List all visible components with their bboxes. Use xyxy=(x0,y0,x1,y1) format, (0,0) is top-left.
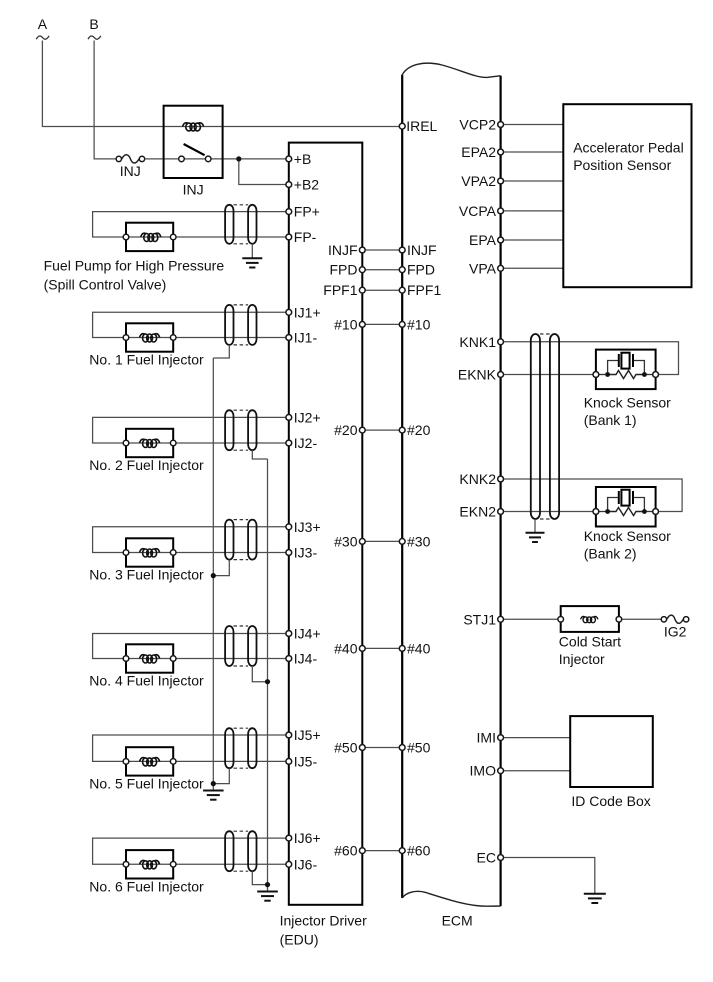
svg-text:FPD: FPD xyxy=(407,262,435,278)
svg-text:INJ: INJ xyxy=(120,163,141,179)
svg-text:IMO: IMO xyxy=(470,763,497,779)
svg-text:#20: #20 xyxy=(407,422,431,438)
svg-text:VPA: VPA xyxy=(469,260,497,276)
svg-text:+B2: +B2 xyxy=(294,177,320,193)
svg-text:VCPA: VCPA xyxy=(459,203,497,219)
svg-text:#30: #30 xyxy=(334,533,358,549)
svg-text:+B: +B xyxy=(294,151,312,167)
svg-text:INJF: INJF xyxy=(407,242,437,258)
svg-text:#10: #10 xyxy=(334,316,358,332)
svg-text:EKN2: EKN2 xyxy=(459,504,496,520)
svg-text:IJ5-: IJ5- xyxy=(294,753,318,769)
svg-text:Fuel Pump for High Pressure: Fuel Pump for High Pressure xyxy=(44,258,225,274)
svg-text:IJ4-: IJ4- xyxy=(294,651,318,667)
svg-text:No. 5 Fuel Injector: No. 5 Fuel Injector xyxy=(89,775,204,791)
svg-text:ECM: ECM xyxy=(442,913,473,929)
svg-text:#60: #60 xyxy=(407,843,431,859)
svg-text:B: B xyxy=(89,16,98,32)
svg-text:ID Code Box: ID Code Box xyxy=(571,793,650,809)
svg-text:STJ1: STJ1 xyxy=(463,611,496,627)
svg-text:FP+: FP+ xyxy=(294,204,320,220)
svg-text:IJ2+: IJ2+ xyxy=(294,409,321,425)
svg-text:VCP2: VCP2 xyxy=(459,117,496,133)
svg-text:No. 1 Fuel Injector: No. 1 Fuel Injector xyxy=(89,352,204,368)
svg-text:Injector Driver: Injector Driver xyxy=(280,913,367,929)
svg-text:Knock Sensor: Knock Sensor xyxy=(584,394,671,410)
svg-text:IJ2-: IJ2- xyxy=(294,435,318,451)
svg-text:Injector: Injector xyxy=(559,651,605,667)
svg-text:EC: EC xyxy=(477,850,496,866)
svg-text:FPD: FPD xyxy=(330,262,358,278)
svg-text:INJF: INJF xyxy=(328,242,358,258)
svg-text:KNK2: KNK2 xyxy=(459,471,496,487)
svg-text:Knock Sensor: Knock Sensor xyxy=(584,528,671,544)
svg-text:No. 2 Fuel Injector: No. 2 Fuel Injector xyxy=(89,457,204,473)
svg-text:IJ3+: IJ3+ xyxy=(294,519,321,535)
svg-text:(Bank 1): (Bank 1) xyxy=(584,412,637,428)
svg-text:#40: #40 xyxy=(407,640,431,656)
svg-text:IJ1-: IJ1- xyxy=(294,330,318,346)
svg-text:No. 3 Fuel Injector: No. 3 Fuel Injector xyxy=(89,567,204,583)
svg-text:FP-: FP- xyxy=(294,229,317,245)
svg-text:#30: #30 xyxy=(407,533,431,549)
svg-text:EPA2: EPA2 xyxy=(461,144,496,160)
svg-text:(Spill Control Valve): (Spill Control Valve) xyxy=(44,276,167,292)
svg-text:No. 6 Fuel Injector: No. 6 Fuel Injector xyxy=(89,878,204,894)
svg-text:VPA2: VPA2 xyxy=(461,173,496,189)
svg-text:No. 4 Fuel Injector: No. 4 Fuel Injector xyxy=(89,673,204,689)
svg-text:IG2: IG2 xyxy=(664,623,687,639)
svg-text:Cold Start: Cold Start xyxy=(559,634,621,650)
svg-text:KNK1: KNK1 xyxy=(459,334,496,350)
svg-text:IJ3-: IJ3- xyxy=(294,545,318,561)
svg-text:EKNK: EKNK xyxy=(458,367,497,383)
svg-text:#20: #20 xyxy=(334,422,358,438)
svg-text:IJ6-: IJ6- xyxy=(294,856,318,872)
svg-text:IREL: IREL xyxy=(406,118,437,134)
svg-text:#10: #10 xyxy=(407,316,431,332)
svg-text:INJ: INJ xyxy=(183,182,204,198)
svg-text:FPF1: FPF1 xyxy=(323,282,357,298)
svg-text:Accelerator Pedal: Accelerator Pedal xyxy=(573,139,684,155)
svg-text:#60: #60 xyxy=(334,843,358,859)
svg-text:IJ1+: IJ1+ xyxy=(294,304,321,320)
svg-text:FPF1: FPF1 xyxy=(407,282,441,298)
svg-text:#50: #50 xyxy=(407,740,431,756)
svg-text:(Bank 2): (Bank 2) xyxy=(584,546,637,562)
svg-text:EPA: EPA xyxy=(469,232,497,248)
svg-text:IJ6+: IJ6+ xyxy=(294,830,321,846)
svg-text:IJ4+: IJ4+ xyxy=(294,626,321,642)
svg-text:#40: #40 xyxy=(334,640,358,656)
svg-text:IJ5+: IJ5+ xyxy=(294,727,321,743)
svg-text:Position Sensor: Position Sensor xyxy=(573,157,671,173)
svg-text:#50: #50 xyxy=(334,740,358,756)
svg-text:IMI: IMI xyxy=(477,730,496,746)
svg-text:A: A xyxy=(38,16,48,32)
svg-text:(EDU): (EDU) xyxy=(280,932,319,948)
